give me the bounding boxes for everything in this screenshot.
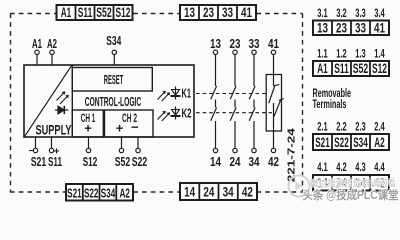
svg-text:S21: S21	[31, 154, 47, 169]
svg-text:S22: S22	[132, 154, 148, 169]
watermark logo circle	[289, 176, 310, 197]
svg-text:13: 13	[317, 20, 328, 35]
svg-text:S11: S11	[78, 5, 93, 20]
svg-text:S21: S21	[67, 185, 82, 200]
svg-text:23: 23	[230, 36, 241, 51]
relay K1 symbol (opto arrows + LED)	[158, 91, 171, 101]
svg-text:34: 34	[249, 154, 261, 169]
bottom pin S21	[35, 137, 37, 148]
svg-text:S34: S34	[101, 185, 116, 200]
svg-text:A1: A1	[61, 5, 72, 20]
svg-text:24: 24	[230, 154, 242, 169]
svg-text:S11: S11	[48, 154, 62, 169]
svg-text:41: 41	[268, 36, 279, 51]
svg-text:S34: S34	[353, 135, 368, 150]
svg-text:1.1: 1.1	[317, 49, 328, 61]
svg-text:Terminals: Terminals	[313, 97, 347, 111]
watermark wash over bottom-right	[314, 177, 388, 189]
svg-text:221-7-24: 221-7-24	[286, 128, 298, 182]
RESET box	[72, 68, 152, 92]
supply diode	[55, 106, 69, 114]
contact column 23-24	[230, 36, 242, 169]
svg-text:微信搜索技成培训网看: 微信搜索技成培训网看	[310, 178, 396, 189]
svg-text:41: 41	[374, 20, 385, 35]
svg-text:13: 13	[184, 5, 195, 20]
svg-text:23: 23	[336, 20, 347, 35]
terminal strip top-left [A1|S11|S52|S12]	[57, 5, 133, 20]
supply right divider	[71, 65, 73, 137]
svg-text:1.2: 1.2	[336, 49, 347, 61]
svg-text:2.1: 2.1	[317, 121, 328, 133]
svg-text:4.1: 4.1	[317, 162, 328, 174]
svg-text:41: 41	[241, 5, 252, 20]
contact column 41-42 (NC in box)	[266, 36, 284, 169]
right panel: row 4.x labels	[317, 162, 385, 174]
right panel strip [S21|S22|S34|A2]	[313, 134, 389, 150]
svg-text:S12: S12	[116, 5, 131, 20]
svg-text:S12: S12	[372, 61, 387, 76]
right panel: row 3.x labels	[317, 8, 385, 20]
svg-text:S21: S21	[315, 135, 330, 150]
supply opto arrows	[57, 91, 69, 104]
terminal strip bottom-right [14|24|34|42]	[180, 183, 257, 200]
svg-text:4.4: 4.4	[374, 162, 385, 174]
right panel strip [14|24|34|42]	[313, 175, 389, 191]
svg-text:S52: S52	[96, 5, 112, 20]
svg-text:23: 23	[203, 5, 214, 20]
svg-text:3.1: 3.1	[317, 8, 328, 20]
svg-text:2.4: 2.4	[374, 121, 385, 133]
svg-text:S12: S12	[83, 154, 98, 169]
CH 1 box	[72, 110, 103, 137]
svg-text:34: 34	[223, 185, 234, 200]
svg-text:24: 24	[203, 185, 214, 200]
svg-text:2.3: 2.3	[355, 121, 366, 133]
mechanical linkage dashed row K2	[196, 112, 272, 114]
right panel: row 1.x labels	[317, 49, 385, 61]
svg-text:1.3: 1.3	[355, 49, 366, 61]
relay K2 symbol (opto arrows + LED)	[158, 111, 171, 121]
right panel strip [A1|S11|S52|S12]	[313, 61, 389, 76]
svg-text:K1: K1	[182, 86, 192, 100]
svg-text:14: 14	[210, 154, 222, 169]
svg-text:头条 @技成PLC课堂: 头条 @技成PLC课堂	[303, 188, 399, 202]
terminal strip bottom-left [S21|S22|S34|A2]	[66, 184, 133, 201]
svg-text:13: 13	[210, 36, 221, 51]
svg-text:S52: S52	[353, 61, 369, 76]
svg-text:A2: A2	[47, 36, 57, 51]
svg-text:3.3: 3.3	[355, 8, 366, 20]
svg-text:42: 42	[268, 154, 279, 169]
bottom pin S11	[51, 137, 53, 148]
dashed enclosure border	[10, 14, 303, 193]
svg-text:33: 33	[222, 5, 233, 20]
svg-text:S11: S11	[334, 61, 349, 76]
svg-text:A2: A2	[119, 185, 130, 200]
svg-text:3.2: 3.2	[336, 8, 347, 20]
svg-text:SUPPLY: SUPPLY	[36, 122, 72, 138]
svg-text:RESET: RESET	[104, 72, 124, 87]
CH 2 box	[105, 110, 154, 137]
svg-text:+: +	[84, 121, 92, 136]
supply section diagonal	[25, 66, 72, 137]
svg-text:A1: A1	[317, 61, 328, 76]
svg-text:+: +	[116, 121, 124, 136]
svg-text:42: 42	[242, 185, 253, 200]
svg-text:A2: A2	[374, 135, 385, 150]
svg-text:3.4: 3.4	[374, 8, 385, 20]
svg-text:33: 33	[355, 20, 366, 35]
svg-text:1.4: 1.4	[374, 49, 385, 61]
svg-text:S34: S34	[106, 33, 121, 48]
right panel strip [13|23|33|41]	[313, 20, 389, 35]
svg-text:−: −	[131, 120, 139, 135]
svg-text:A1: A1	[32, 36, 42, 51]
right panel: row 2.x labels	[317, 121, 385, 133]
bottom pin S52	[121, 137, 123, 148]
mechanical linkage dashed row K1	[196, 93, 266, 95]
svg-text:S22: S22	[84, 185, 99, 200]
svg-text:CONTROL-LOGIC: CONTROL-LOGIC	[85, 94, 142, 109]
bottom pin S12	[88, 137, 90, 148]
bottom pin S22	[137, 137, 139, 148]
svg-text:K2: K2	[182, 106, 192, 120]
main device box	[24, 65, 194, 137]
contact column 33-34	[249, 36, 261, 169]
svg-text:S52: S52	[115, 154, 131, 169]
svg-text:14: 14	[184, 185, 195, 200]
contact column 13-14	[210, 36, 222, 169]
svg-text:33: 33	[249, 36, 260, 51]
svg-text:2.2: 2.2	[336, 121, 347, 133]
terminal strip top-right [13|23|33|41]	[180, 5, 256, 20]
svg-text:4.2: 4.2	[336, 162, 347, 174]
svg-text:S22: S22	[334, 135, 349, 150]
svg-text:4.3: 4.3	[355, 162, 366, 174]
